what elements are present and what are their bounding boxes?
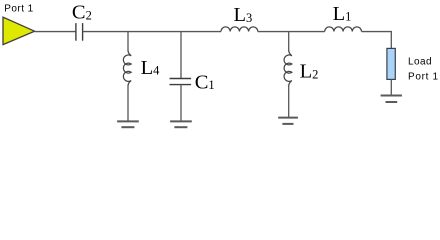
wire port to C2 <box>35 31 76 33</box>
capacitor C1 <box>170 79 192 85</box>
svg-text:C2: C2 <box>72 2 92 24</box>
wire L1 to load <box>362 32 392 49</box>
inductor L1 <box>325 27 362 32</box>
svg-text:L3: L3 <box>234 4 253 26</box>
inductor L2 <box>284 50 292 86</box>
wire L4 branch upper <box>127 31 129 51</box>
wire C2 to L3 <box>83 31 221 33</box>
ground under L4 <box>117 121 139 127</box>
wire L4 to ground <box>127 86 129 122</box>
svg-text:L2: L2 <box>300 61 319 83</box>
ground under L2 <box>278 118 298 124</box>
svg-text:Load: Load <box>408 57 432 68</box>
ground under C1 <box>170 121 192 127</box>
wire L2 to ground <box>288 86 290 118</box>
wire load to ground <box>390 79 392 95</box>
inductor L4 <box>123 50 131 86</box>
load resistor Load Port 1 <box>387 48 395 79</box>
wire C1 to ground <box>180 85 182 122</box>
inductor L3 <box>221 27 258 32</box>
svg-text:Port 1: Port 1 <box>4 4 33 15</box>
svg-text:C1: C1 <box>195 71 215 93</box>
svg-text:Port 1: Port 1 <box>408 72 439 83</box>
wire C1 branch upper <box>180 31 182 79</box>
wire L3 to L1 <box>258 31 325 33</box>
wire L2 branch upper <box>288 31 290 51</box>
svg-text:L1: L1 <box>333 3 352 25</box>
ground under load <box>381 96 402 103</box>
svg-text:L4: L4 <box>141 57 161 79</box>
port P1 symbol <box>3 17 35 44</box>
capacitor C2 <box>76 23 83 41</box>
